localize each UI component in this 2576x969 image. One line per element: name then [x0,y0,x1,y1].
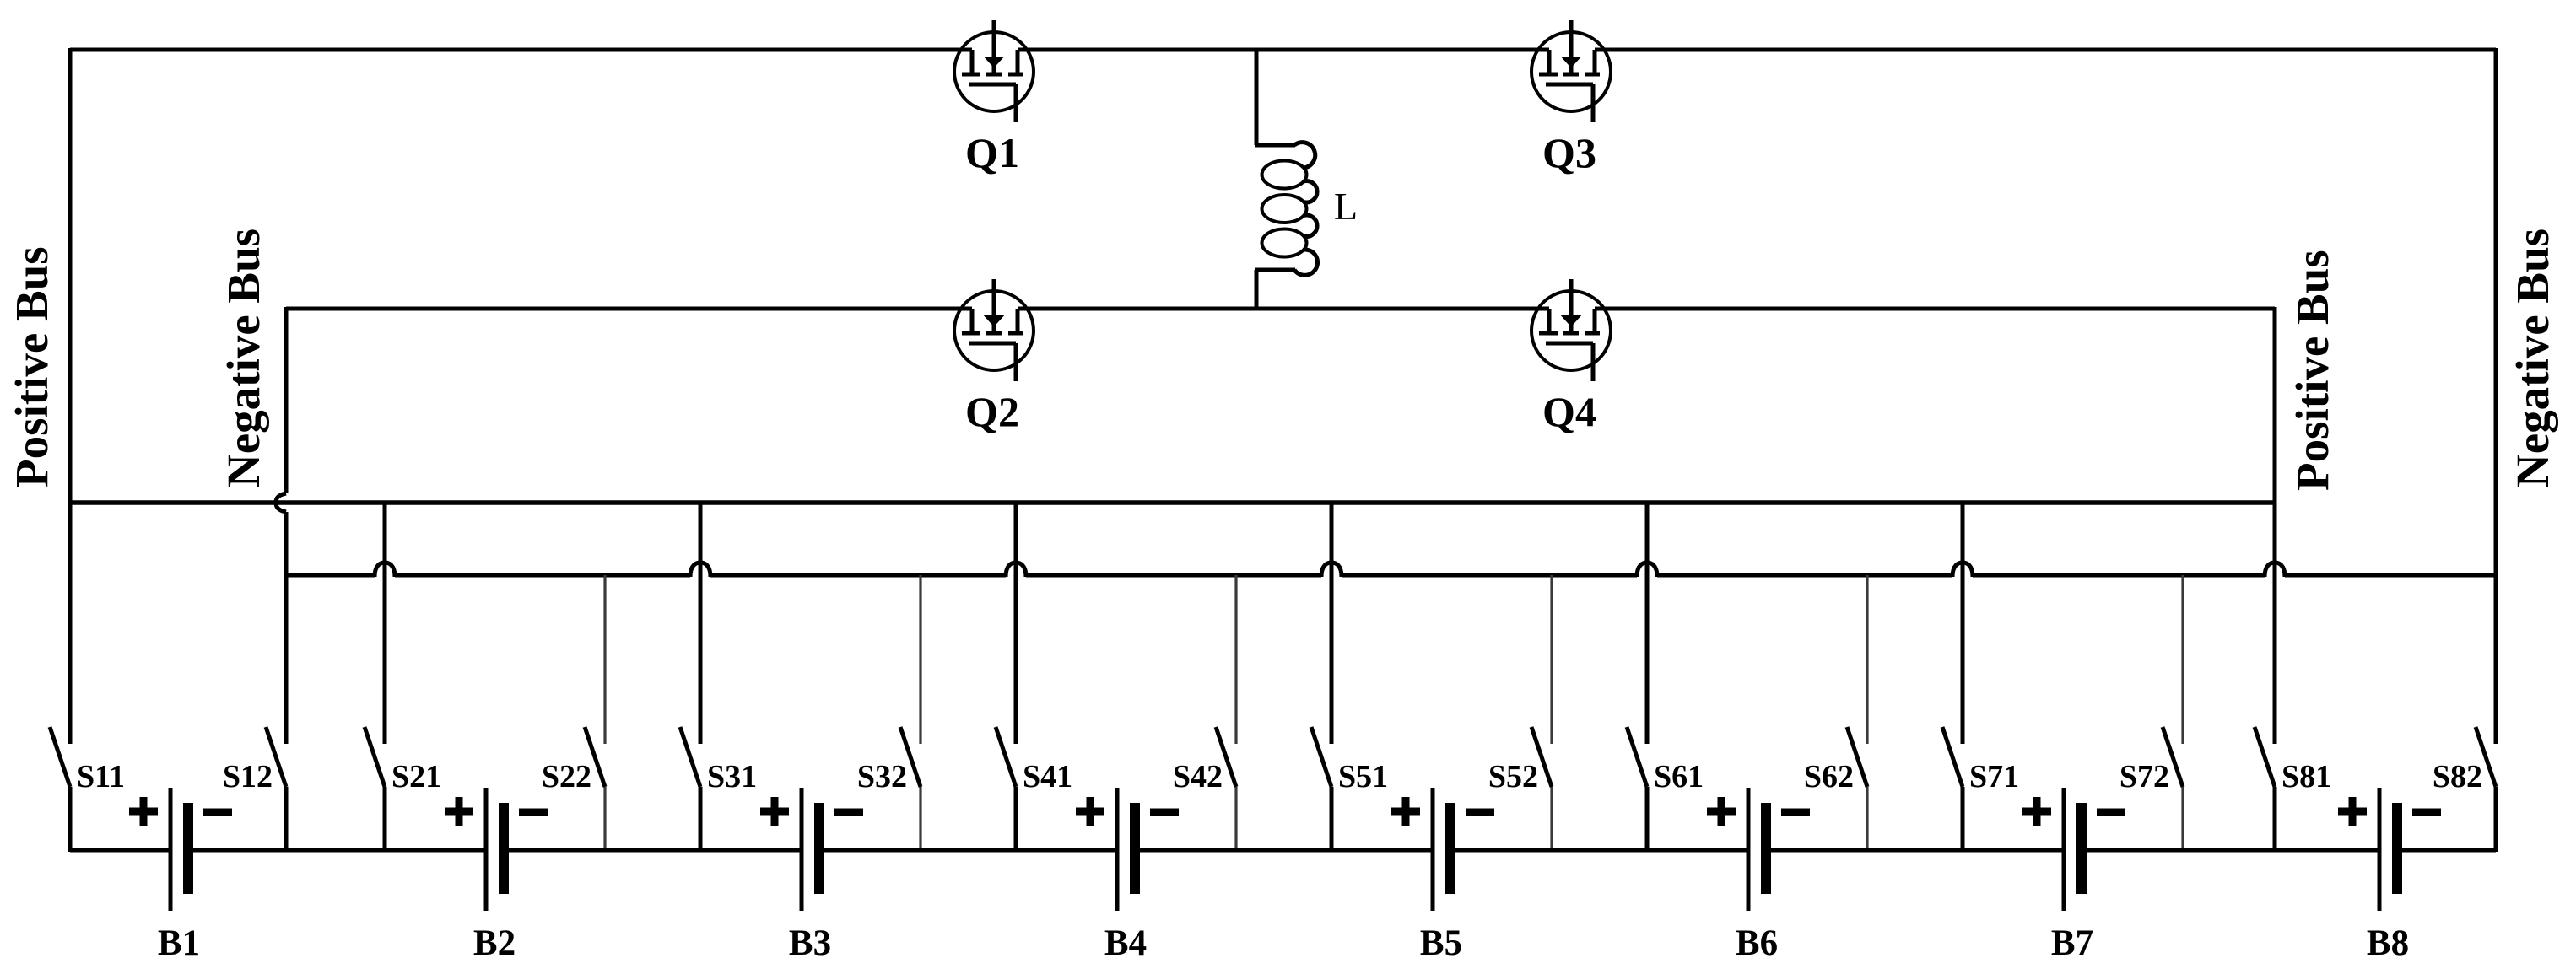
svg-text:S71: S71 [1969,759,2019,794]
wire S22 lower lead [603,787,606,852]
battery B7 minus sign [2097,809,2125,816]
switch label S72 [2120,759,2169,794]
svg-text:S72: S72 [2120,759,2169,794]
battery label B1 [158,923,200,963]
battery B4 plus sign [1076,797,1104,826]
wire S52 tap from negative distribution line [1550,575,1553,744]
switch S72 blade [2163,727,2183,787]
battery B7 positive plate [2062,788,2066,911]
svg-text:S51: S51 [1338,759,1388,794]
wire S32 lower lead [919,787,921,852]
switch label S32 [857,759,907,794]
switch label S42 [1173,759,1223,794]
battery B8 positive plate [2378,788,2382,911]
inductor label L [1334,185,1358,228]
switch S32 blade [900,727,921,787]
svg-text:Q2: Q2 [965,388,1019,435]
svg-text:L: L [1334,185,1358,228]
switch S81 blade [2255,727,2275,787]
svg-text:B2: B2 [473,923,516,963]
switch S21 blade [365,727,385,787]
switch label S61 [1654,759,1704,794]
svg-text:S82: S82 [2433,759,2482,794]
label Negative Bus (right outer) [2507,229,2558,487]
battery B6 minus sign [1781,809,1810,816]
wire S42 tap from negative distribution line [1234,575,1237,744]
wire right negative bus vertical lower [2494,787,2498,852]
svg-text:S31: S31 [707,759,757,794]
wire S62 tap from negative distribution line [1866,575,1868,744]
switch S41 blade [996,727,1016,787]
transistor Q1 (MOSFET) [954,20,1034,122]
transistor label Q2 [965,388,1019,435]
transistor label Q1 [965,129,1019,176]
battery B2 negative plate [499,803,509,894]
battery B7 plus sign [2022,797,2051,826]
wire S51 tap from positive distribution line [1330,503,1334,744]
svg-text:Positive Bus: Positive Bus [6,246,57,487]
switch S42 blade [1216,727,1236,787]
wire negative second bus middle segment [1018,307,1549,311]
wire negative distribution line [286,573,2496,578]
switch label S81 [2282,759,2331,794]
wire inner right positive bus vertical upper [2273,307,2277,744]
switch label S52 [1488,759,1538,794]
switch S62 blade [1847,727,1867,787]
battery B4 minus sign [1150,809,1179,816]
wire crossover hop at x=1578 on negative distribution line [1321,563,1342,577]
svg-text:B8: B8 [2367,923,2409,963]
transistor Q2 (MOSFET) [954,279,1034,381]
transistor Q4 (MOSFET) [1531,279,1611,381]
switch label S71 [1969,759,2019,794]
svg-text:B5: B5 [1420,923,1462,963]
switch S11 blade [50,727,70,787]
svg-text:S22: S22 [542,759,591,794]
wire S42 lower lead [1234,787,1237,852]
transistor label Q4 [1542,388,1596,435]
battery B1 minus sign [203,809,232,816]
wire S72 lower lead [2181,787,2184,852]
wire crossover hop at x=1204 on negative distribution line [1006,563,1026,577]
svg-text:Positive Bus: Positive Bus [2287,250,2338,491]
wire S62 lower lead [1866,787,1868,852]
svg-text:B1: B1 [158,923,200,963]
battery B6 negative plate [1761,803,1771,894]
battery B5 negative plate [1445,803,1455,894]
switch label S12 [223,759,273,794]
svg-text:Negative Bus: Negative Bus [2507,229,2558,487]
svg-text:S42: S42 [1173,759,1223,794]
wire S32 tap from negative distribution line [919,575,921,744]
wire crossover hop at x=830 on negative distribution line [690,563,710,577]
wire S71 lower lead [1961,787,1965,852]
battery B2 positive plate [484,788,489,911]
wire inner left vertical lower (S12 to node) [284,787,289,852]
svg-text:S21: S21 [392,759,441,794]
wire crossover hop at x=2696 on negative distribution line [2265,563,2285,577]
svg-text:S61: S61 [1654,759,1704,794]
battery label B3 [789,923,831,963]
battery label B5 [1420,923,1462,963]
svg-text:B6: B6 [1736,923,1778,963]
wire crossover jog of inner left vertical over positive distribution line [276,493,286,512]
switch S51 blade [1311,727,1331,787]
wire positive top bus middle segment [1018,48,1549,52]
switch label S51 [1338,759,1388,794]
label Negative Bus (left inner) [218,229,269,487]
wire positive top bus right segment [1595,48,2496,52]
battery B1 negative plate [183,803,193,894]
wire S21 lower lead [383,787,387,852]
svg-text:S81: S81 [2282,759,2331,794]
wire S52 lower lead [1550,787,1553,852]
battery label B2 [473,923,516,963]
wire inner right vertical lower (S81 to node) [2273,787,2277,852]
battery label B8 [2367,923,2409,963]
inductor L wire to second bus [1255,270,1259,309]
inductor L top lead [1255,143,1295,148]
battery B8 minus sign [2412,809,2441,816]
switch label S62 [1804,759,1854,794]
wire negative second bus right segment [1595,307,2275,311]
switch S22 blade [585,727,605,787]
battery B2 plus sign [445,797,473,826]
wire positive distribution line [70,500,2275,505]
svg-text:Q3: Q3 [1542,129,1596,176]
switch S82 blade [2476,727,2496,787]
wire S41 lower lead [1014,787,1018,852]
wire left positive bus vertical upper [68,48,73,744]
transistor Q3 (MOSFET) [1531,20,1611,122]
battery B6 positive plate [1747,788,1751,911]
wire S31 lower lead [699,787,703,852]
wire crossover hop at x=1952 on negative distribution line [1637,563,1657,577]
battery B3 negative plate [814,803,824,894]
wire negative second bus left segment [286,307,972,311]
battery B1 plus sign [129,797,158,826]
wire crossover hop at x=2326 on negative distribution line [1952,563,1973,577]
svg-text:S12: S12 [223,759,273,794]
svg-text:B4: B4 [1104,923,1147,963]
svg-text:S11: S11 [77,759,125,794]
svg-text:S52: S52 [1488,759,1538,794]
svg-text:S62: S62 [1804,759,1854,794]
battery B4 negative plate [1130,803,1140,894]
battery B5 minus sign [1466,809,1494,816]
svg-text:B3: B3 [789,923,831,963]
battery B7 negative plate [2076,803,2087,894]
battery B8 negative plate [2392,803,2402,894]
switch S71 blade [1942,727,1963,787]
inductor L wire from top bus [1255,50,1259,145]
wire S22 tap from negative distribution line [603,575,606,744]
svg-text:S41: S41 [1023,759,1072,794]
inductor L coil [1262,143,1318,276]
wire inner left negative bus vertical upper [284,307,289,493]
battery label B7 [2051,923,2093,963]
switch S52 blade [1531,727,1552,787]
wire S21 tap from positive distribution line [383,503,387,744]
battery B3 plus sign [760,797,789,826]
svg-text:B7: B7 [2051,923,2093,963]
wire crossover hop at x=456 on negative distribution line [375,563,395,577]
wire right negative bus vertical upper [2494,48,2498,744]
battery B8 plus sign [2338,797,2367,826]
switch label S41 [1023,759,1072,794]
battery B3 positive plate [800,788,804,911]
switch label S11 [77,759,125,794]
wire battery series string line [70,848,2496,853]
svg-text:Q1: Q1 [965,129,1019,176]
battery B5 positive plate [1431,788,1435,911]
switch label S31 [707,759,757,794]
svg-text:Negative Bus: Negative Bus [218,229,269,487]
wire S71 tap from positive distribution line [1961,503,1965,744]
battery B5 plus sign [1391,797,1420,826]
wire S72 tap from negative distribution line [2181,575,2184,744]
label Positive Bus (left outer) [6,246,57,487]
wire S61 tap from positive distribution line [1645,503,1650,744]
battery B1 positive plate [169,788,173,911]
battery B3 minus sign [834,809,863,816]
wire S51 lower lead [1330,787,1334,852]
wire S31 tap from positive distribution line [699,503,703,744]
battery B6 plus sign [1707,797,1736,826]
switch label S82 [2433,759,2482,794]
wire positive top bus left segment [70,48,972,52]
switch label S22 [542,759,591,794]
battery label B4 [1104,923,1147,963]
transistor label Q3 [1542,129,1596,176]
inductor L bottom lead [1255,268,1295,272]
wire inner left negative bus vertical middle [284,512,289,744]
wire left positive bus vertical lower [68,787,73,852]
wire S41 tap from positive distribution line [1014,503,1018,744]
switch S31 blade [680,727,700,787]
battery B4 positive plate [1115,788,1120,911]
battery B2 minus sign [519,809,548,816]
svg-text:S32: S32 [857,759,907,794]
switch S61 blade [1627,727,1647,787]
battery label B6 [1736,923,1778,963]
svg-text:Q4: Q4 [1542,388,1596,435]
switch label S21 [392,759,441,794]
switch S12 blade [266,727,286,787]
label Positive Bus (right inner) [2287,250,2338,491]
wire S61 lower lead [1645,787,1650,852]
